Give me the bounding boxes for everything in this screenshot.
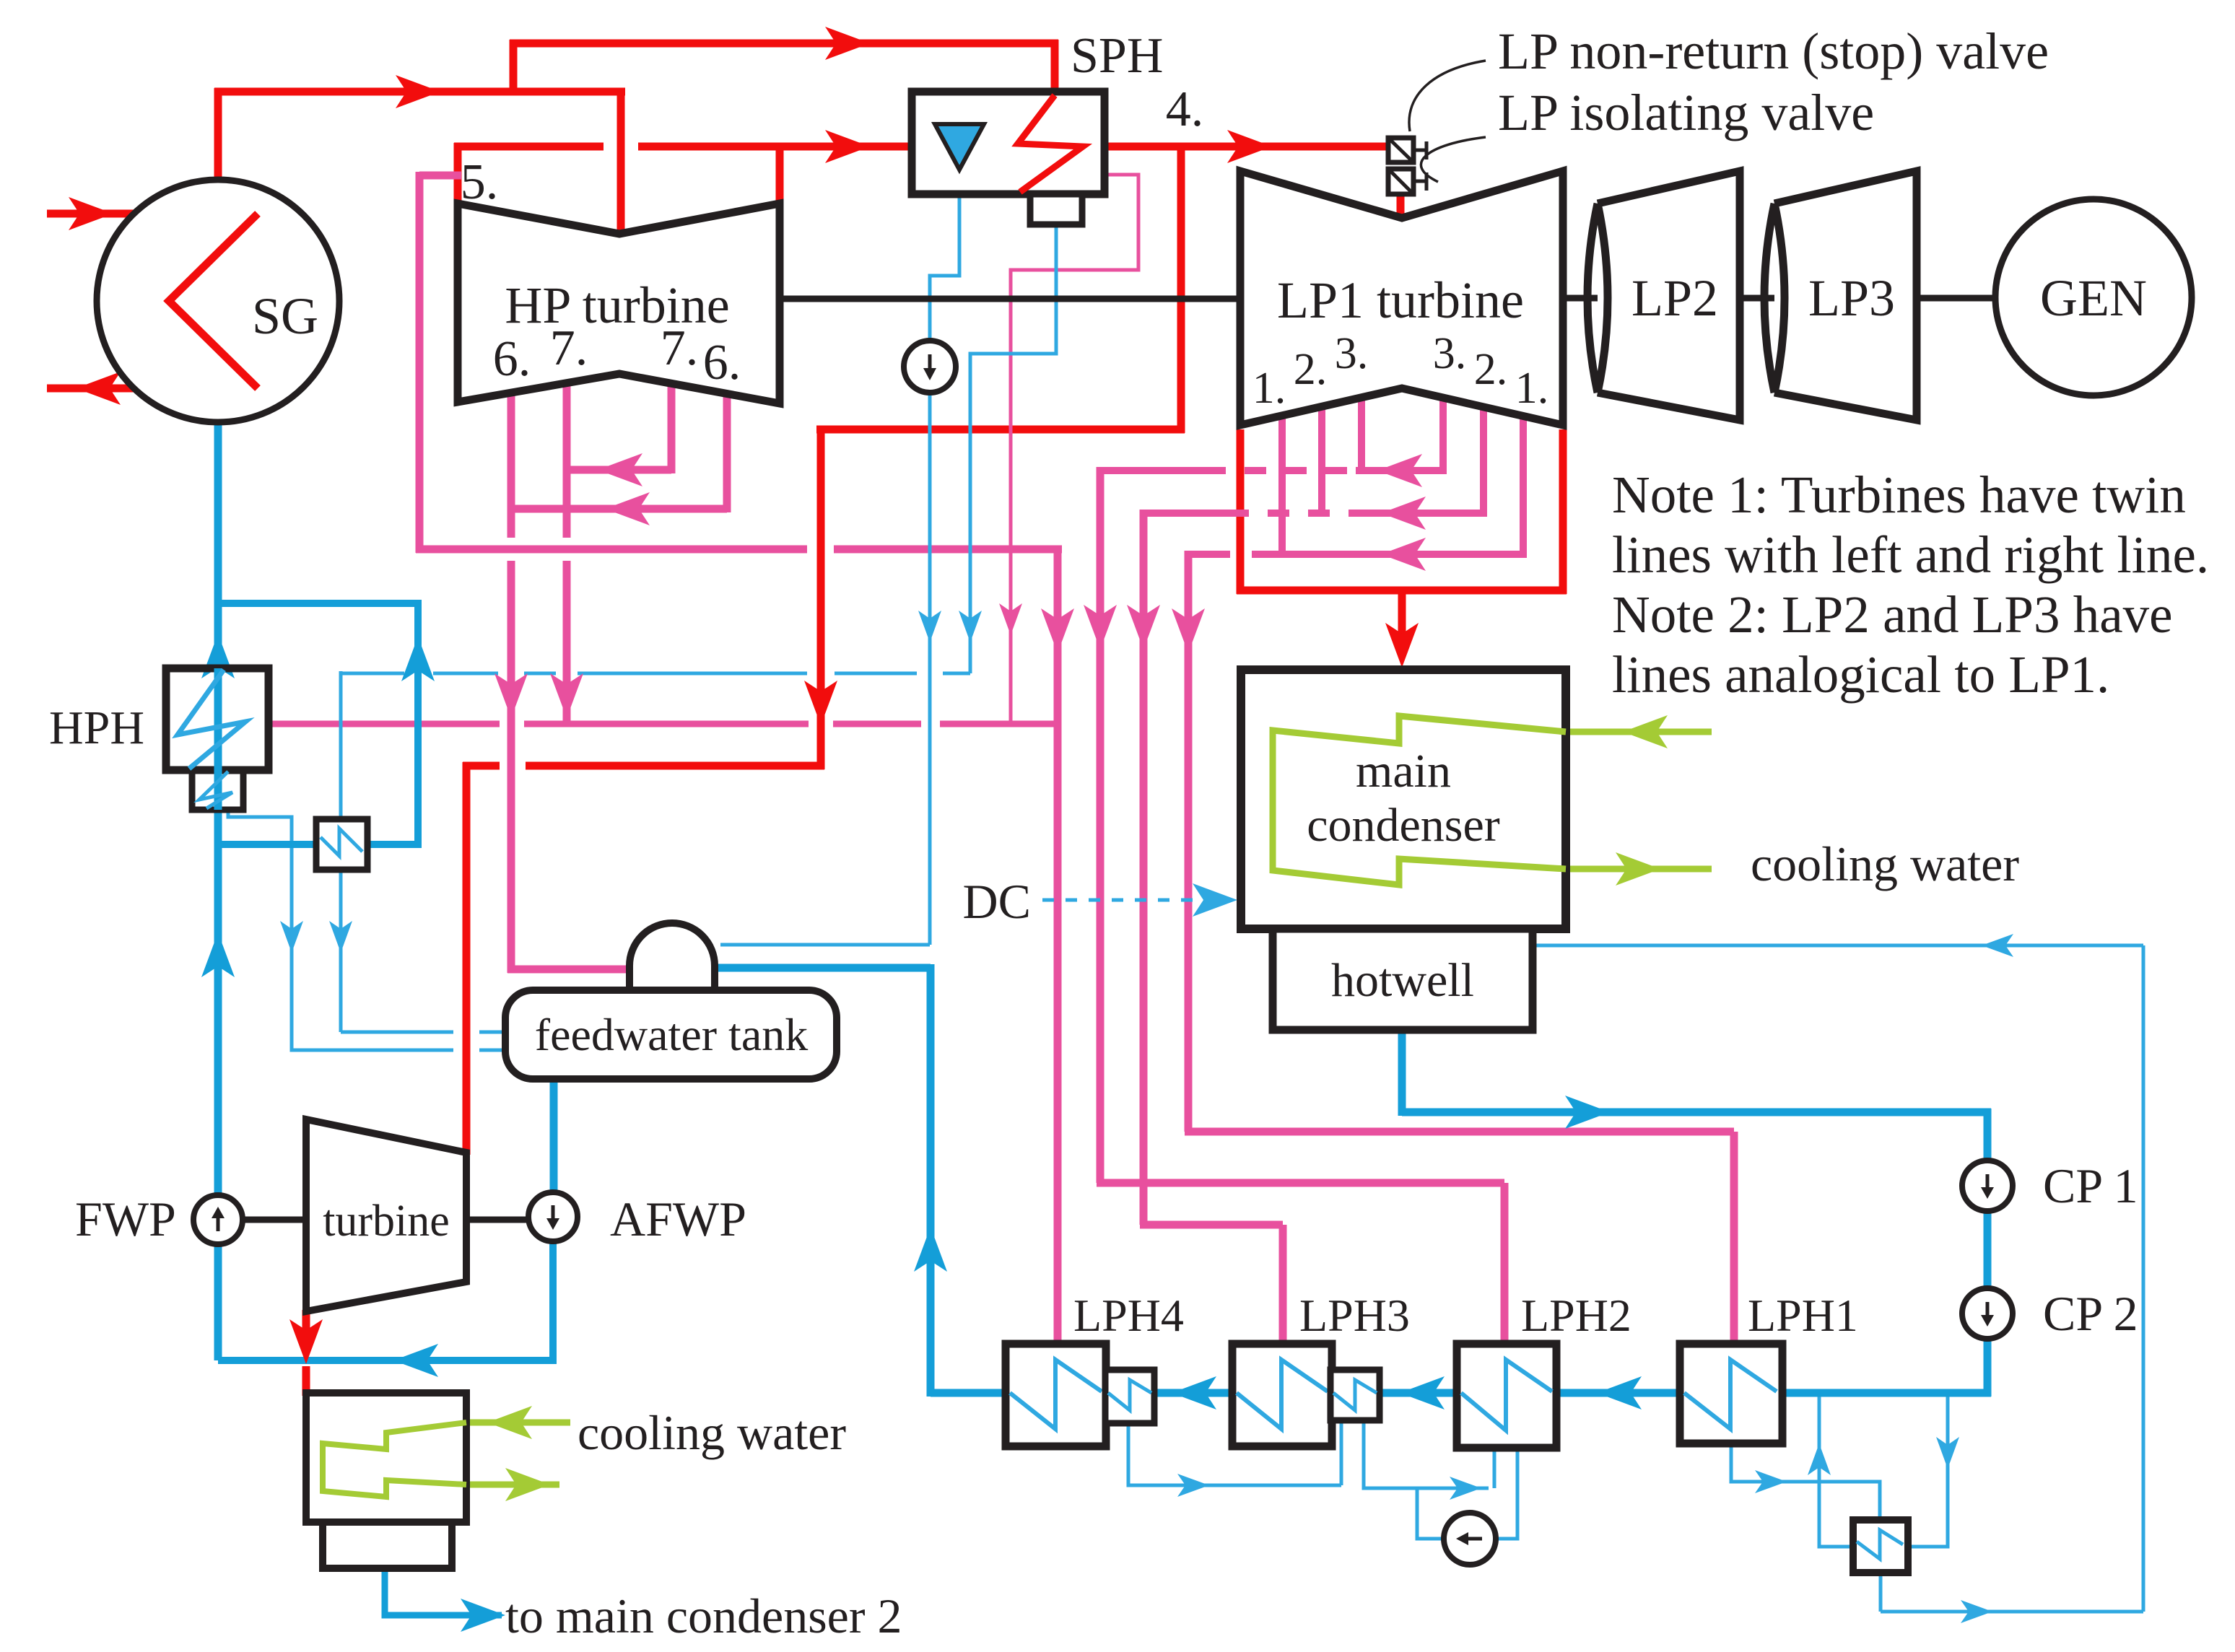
svg-text:SG: SG xyxy=(252,287,318,345)
wire: 4. extraction horizontal y=595 xyxy=(816,426,1185,434)
pump CP2 xyxy=(1962,1288,2013,1339)
wire: live steam branch to SPH coil xyxy=(510,40,518,95)
svg-text:cooling water: cooling water xyxy=(1751,836,2019,891)
wire: AFWP outlet down xyxy=(549,1241,557,1364)
wire: bundle riser x=1465 (5. down to LPH4) xyxy=(1054,546,1062,1344)
condenser 2 box xyxy=(306,1393,466,1522)
svg-text:LP2: LP2 xyxy=(1631,269,1718,327)
LPH1 drain cooler coil xyxy=(1857,1530,1903,1559)
wire: hotwell drain xyxy=(1398,1030,1406,1116)
svg-text:LPH2: LPH2 xyxy=(1521,1290,1631,1341)
SPH moisture separator triangle xyxy=(935,124,984,170)
wire: hotwell return line y=1310 xyxy=(1533,944,2143,948)
svg-text:LP non-return (stop) valve: LP non-return (stop) valve xyxy=(1498,22,2049,80)
wire: CP2 outlet to LPH1 xyxy=(1782,1389,1987,1397)
svg-text:lines with left and right line: lines with left and right line. xyxy=(1612,525,2209,584)
LPH3 subcooler coil xyxy=(1333,1380,1377,1410)
svg-text:SPH: SPH xyxy=(1071,28,1163,84)
svg-text:cooling water: cooling water xyxy=(578,1405,846,1460)
valve callout curve lower xyxy=(1421,137,1486,182)
svg-text:Note 1: Turbines have twin: Note 1: Turbines have twin xyxy=(1612,466,2186,524)
arrowheads on red steam lines xyxy=(396,75,440,108)
wire: HPH feed header y=1003 xyxy=(269,721,500,727)
wire: HPH bypass riser x=579 xyxy=(414,600,422,848)
wire: condensate main y=1930 LPH train xyxy=(931,1389,1991,1397)
wire: condenser2 drain to main condenser 2 xyxy=(385,1568,502,1615)
hotwell box xyxy=(1273,929,1533,1030)
wire: tank bottom to AFWP xyxy=(550,1077,558,1195)
wire: LP1 extraction 3. right stub xyxy=(1439,397,1447,474)
LPH1 drain cooler box xyxy=(1853,1520,1908,1573)
svg-text:main: main xyxy=(1356,745,1451,797)
main condenser CW coil xyxy=(1273,716,1566,885)
shaft LP1 to LP2 xyxy=(1563,295,1599,302)
wire: main steam SG top riser xyxy=(214,88,222,182)
HPH drain cooler box xyxy=(316,819,367,870)
wire: main feedwater riser x=302 (FWP to SG) xyxy=(214,419,222,1195)
wire: LP1 extraction 2. left stub xyxy=(1318,408,1325,513)
wire: LPH4 subcooler drain xyxy=(1128,1423,1341,1485)
FWP shaft xyxy=(243,1217,306,1223)
condenser 2 CW coil xyxy=(323,1422,466,1497)
wire: LP1 1. header y=768 xyxy=(1188,551,1230,558)
wire: riser to tank dome right xyxy=(713,964,931,972)
wire: HP 6. merge header y=705 xyxy=(515,505,727,513)
LPH4 subcooler box xyxy=(1105,1370,1154,1423)
LP2 turbine xyxy=(1598,171,1740,420)
aux turbine for FWP xyxy=(306,1119,466,1311)
shaft LP3 to GEN xyxy=(1917,295,2000,302)
wire: HP exhaust header to SPH xyxy=(454,143,604,151)
wire: drain cooler 2 outlet y=2233 xyxy=(1881,1610,2143,1614)
wire: SPH shell drain riser x=1463 xyxy=(970,224,1056,673)
HPH heater box xyxy=(166,668,269,770)
svg-text:LP3: LP3 xyxy=(1808,269,1895,327)
LP non-return valve xyxy=(1388,138,1413,162)
wire: LPH3 feed run y=1697 xyxy=(1140,1221,1283,1229)
wire: LPH1 feed run y=1568 xyxy=(1185,1128,1734,1136)
wire: drain cooler 2 return to condensate line xyxy=(1819,1393,1851,1547)
wire: extraction 5. header y=761 to x=1465 xyxy=(416,546,807,554)
arrowheads on green lines xyxy=(1623,715,1668,748)
pump AFWP xyxy=(528,1192,578,1241)
svg-text:LPH3: LPH3 xyxy=(1299,1290,1410,1341)
HPH coil xyxy=(178,670,245,769)
LPH3 heater box xyxy=(1232,1344,1332,1446)
LPH3 subcooler box xyxy=(1330,1370,1380,1420)
svg-text:1.: 1. xyxy=(1252,364,1286,413)
wire: bundle riser x=1524 (3. to LPH2) xyxy=(1097,467,1105,1183)
svg-text:feedwater tank: feedwater tank xyxy=(535,1009,808,1060)
svg-text:condenser: condenser xyxy=(1307,799,1500,852)
valve callout curve upper xyxy=(1409,61,1486,131)
wire: LP1 extraction 2. right stub xyxy=(1480,408,1487,517)
wire: LPH1 drain xyxy=(1731,1442,1880,1523)
wire: SPH shell drain (thin pink) xyxy=(1011,175,1138,722)
wire: hot reheat SPH to LP valves xyxy=(1101,143,1392,151)
wire: SG inlet (hot leg) xyxy=(47,210,258,218)
wire: FWP riser x=302 xyxy=(214,1244,222,1360)
svg-text:6.: 6. xyxy=(703,335,741,390)
HP turbine xyxy=(458,204,780,403)
wire: HP extraction 6. right stub x=1007 xyxy=(723,390,731,512)
wire: LP1 exhaust right leg xyxy=(1559,429,1567,594)
wire: 4. extraction horizontal y=1061 xyxy=(463,762,500,770)
pump SPH drain xyxy=(904,341,956,393)
svg-text:LPH1: LPH1 xyxy=(1748,1290,1858,1341)
LPH3 coil xyxy=(1237,1360,1328,1429)
svg-text:to main condenser 2: to main condenser 2 xyxy=(505,1588,902,1643)
svg-text:GEN: GEN xyxy=(2040,269,2147,327)
svg-text:3.: 3. xyxy=(1335,329,1369,378)
wire: HPH bypass bottom y=1170 xyxy=(214,841,422,848)
LP3 turbine xyxy=(1774,171,1917,420)
svg-text:hotwell: hotwell xyxy=(1331,954,1474,1007)
wire: HP exhaust right riser xyxy=(776,143,784,206)
wire: HP extraction 7. left stub x=785 xyxy=(563,379,571,538)
wire: HP exhaust left riser xyxy=(454,143,462,206)
svg-text:CP 1: CP 1 xyxy=(2043,1158,2138,1213)
svg-text:5.: 5. xyxy=(461,154,499,210)
wire: hotwell to CP1 run y=1541 xyxy=(1402,1109,1991,1116)
svg-text:FWP: FWP xyxy=(75,1192,176,1246)
LPH4 subcooler coil xyxy=(1108,1380,1151,1410)
svg-text:1.: 1. xyxy=(1515,364,1549,413)
wire: extraction 5. from HP top-left xyxy=(419,172,461,180)
wire: main condenser CW inlet xyxy=(1562,729,1712,735)
wire: cascade into LPH3 subcooler xyxy=(1340,1420,1343,1485)
HPH subcooler box xyxy=(192,770,243,810)
wire: main condenser CW outlet xyxy=(1562,866,1712,873)
svg-text:HPH: HPH xyxy=(49,702,144,754)
svg-text:CP 2: CP 2 xyxy=(2043,1286,2138,1341)
svg-text:LPH4: LPH4 xyxy=(1073,1290,1184,1341)
wire: condenser2 CW inlet xyxy=(463,1420,570,1426)
wire: LP1 extraction 1. right stub xyxy=(1520,419,1527,558)
wire: SPH triangle drain xyxy=(930,170,959,344)
AFWP shaft xyxy=(466,1217,530,1223)
generator GEN xyxy=(1995,199,2192,395)
feedwater tank xyxy=(505,990,837,1079)
shaft LP2 to LP3 xyxy=(1740,295,1776,302)
svg-text:6.: 6. xyxy=(493,331,531,387)
SG heating coil xyxy=(169,214,258,388)
condenser 2 hotwell box xyxy=(323,1522,452,1568)
wire: condenser inlet drop xyxy=(1398,590,1406,653)
wire: LP1 2. header y=711 (dashed mid) xyxy=(1143,510,1227,517)
wire: drain cooler 2 drain down xyxy=(1879,1570,1883,1612)
wire: LP1 exhaust header y=818 xyxy=(1237,587,1567,595)
wire: 6. to feedwater tank dome xyxy=(507,966,631,974)
wire: HPH drain to tank xyxy=(228,811,453,1050)
wire: 4. extraction drop at x=1636 xyxy=(1177,147,1185,433)
wire: valve outlet to LP1 waist xyxy=(1397,192,1405,220)
wire: bundle riser x=1584 (2. to LPH3) xyxy=(1140,510,1148,1225)
wire: aux turbine exhaust to condenser 2 xyxy=(302,1310,310,1344)
main condenser box xyxy=(1241,670,1566,929)
LPH1 heater box xyxy=(1680,1344,1782,1443)
pump CP1 xyxy=(1962,1161,2013,1211)
LPH2 heater box xyxy=(1457,1344,1556,1448)
svg-text:LP isolating valve: LP isolating valve xyxy=(1498,84,1874,141)
svg-text:7.: 7. xyxy=(661,320,699,376)
svg-text:3.: 3. xyxy=(1433,329,1467,378)
wire: LP1 extraction 3. left stub xyxy=(1358,397,1365,471)
svg-text:2.: 2. xyxy=(1474,345,1508,394)
LPH4 heater box xyxy=(1006,1344,1106,1446)
wire: aux turbine steam drop x=646 xyxy=(463,762,471,1155)
wire: riser into LPH2 bottom xyxy=(1493,1446,1496,1488)
steam generator SG xyxy=(97,180,339,422)
wire: SG outlet (cold leg) xyxy=(47,385,258,393)
wire: LP1 extraction 1. left stub xyxy=(1278,417,1286,554)
wire: drain cooler 2 return riser x=2969 xyxy=(2142,945,2145,1612)
feedwater line through HPH xyxy=(214,668,222,810)
wire: HP turbine inlet drop xyxy=(617,92,625,232)
wire: drain cooler 2 feed tap xyxy=(1910,1393,1948,1547)
wire: LPH2 feed run y=1639 xyxy=(1097,1179,1504,1187)
svg-text:4.: 4. xyxy=(1166,82,1204,137)
wire: SPH drain to tank dome top xyxy=(720,943,930,947)
svg-text:LP1 turbine: LP1 turbine xyxy=(1277,271,1524,329)
HPH drain cooler coil xyxy=(321,829,362,856)
SPH drain pot box xyxy=(1030,194,1082,224)
wire: HP extraction 7. right stub x=930 xyxy=(668,378,676,473)
wire: LPH2 drain pump outlet xyxy=(1417,1488,1489,1539)
wire: LPH4 to deaerator riser x=1289 xyxy=(927,964,935,1397)
LP1 turbine xyxy=(1240,171,1563,425)
wire: LPH3 subcooler drain xyxy=(1364,1420,1489,1488)
svg-text:Note 2: LP2 and LP3 have: Note 2: LP2 and LP3 have xyxy=(1612,585,2173,644)
wire: HP 7. merge header y=651 xyxy=(570,466,671,474)
pump FWP xyxy=(193,1195,243,1244)
wire: LPH2 drain to pump xyxy=(1498,1446,1517,1539)
LPH1 coil xyxy=(1684,1360,1777,1429)
pump LPH2 drain xyxy=(1444,1513,1496,1565)
feedwater tank dome xyxy=(629,923,715,993)
wire: drain cooler inlet drop x=472 xyxy=(339,671,343,823)
wire: HPH bypass top y=836 xyxy=(214,600,422,607)
wire: DC dashed line xyxy=(1042,899,1193,902)
wire: drain cooler outlet to tank xyxy=(339,866,343,1032)
wire: pump suction header y=1885 xyxy=(218,1357,557,1364)
svg-text:2.: 2. xyxy=(1294,345,1328,394)
svg-text:turbine: turbine xyxy=(323,1197,450,1246)
shaft HP to LP1 xyxy=(780,296,1244,302)
wire: bundle riser x=1646 (1. to LPH1) xyxy=(1185,551,1193,1132)
LPH2 coil xyxy=(1461,1360,1552,1430)
svg-text:AFWP: AFWP xyxy=(610,1192,746,1246)
wire: condenser2 CW outlet xyxy=(463,1482,559,1488)
SPH separator-reheater box xyxy=(912,92,1105,194)
svg-text:lines analogical to LP1.: lines analogical to LP1. xyxy=(1612,645,2109,704)
HPH subcooler coil xyxy=(199,772,232,808)
svg-text:DC: DC xyxy=(963,874,1031,929)
wire: HP extraction 6. left stub x=708 down to tank dome xyxy=(507,390,515,538)
arrowheads on pink lines xyxy=(1041,608,1074,653)
arrowheads on blue lines xyxy=(201,634,235,678)
wire: LP1 3. header y=652 (dashed mid) xyxy=(1100,467,1204,474)
wire: LP1 exhaust left leg xyxy=(1237,429,1245,594)
wire: drains header y=933 to drain cooler xyxy=(943,672,970,676)
svg-text:7.: 7. xyxy=(550,320,588,376)
arrowheads on cyan thin lines xyxy=(918,611,941,642)
SPH heating coil xyxy=(1018,95,1083,192)
wire: CP column x=2753 xyxy=(1984,1109,1992,1163)
LP isolating valve xyxy=(1388,169,1413,194)
LPH4 coil xyxy=(1010,1360,1102,1429)
wire: 4. extraction drop x=1137 xyxy=(817,426,825,769)
